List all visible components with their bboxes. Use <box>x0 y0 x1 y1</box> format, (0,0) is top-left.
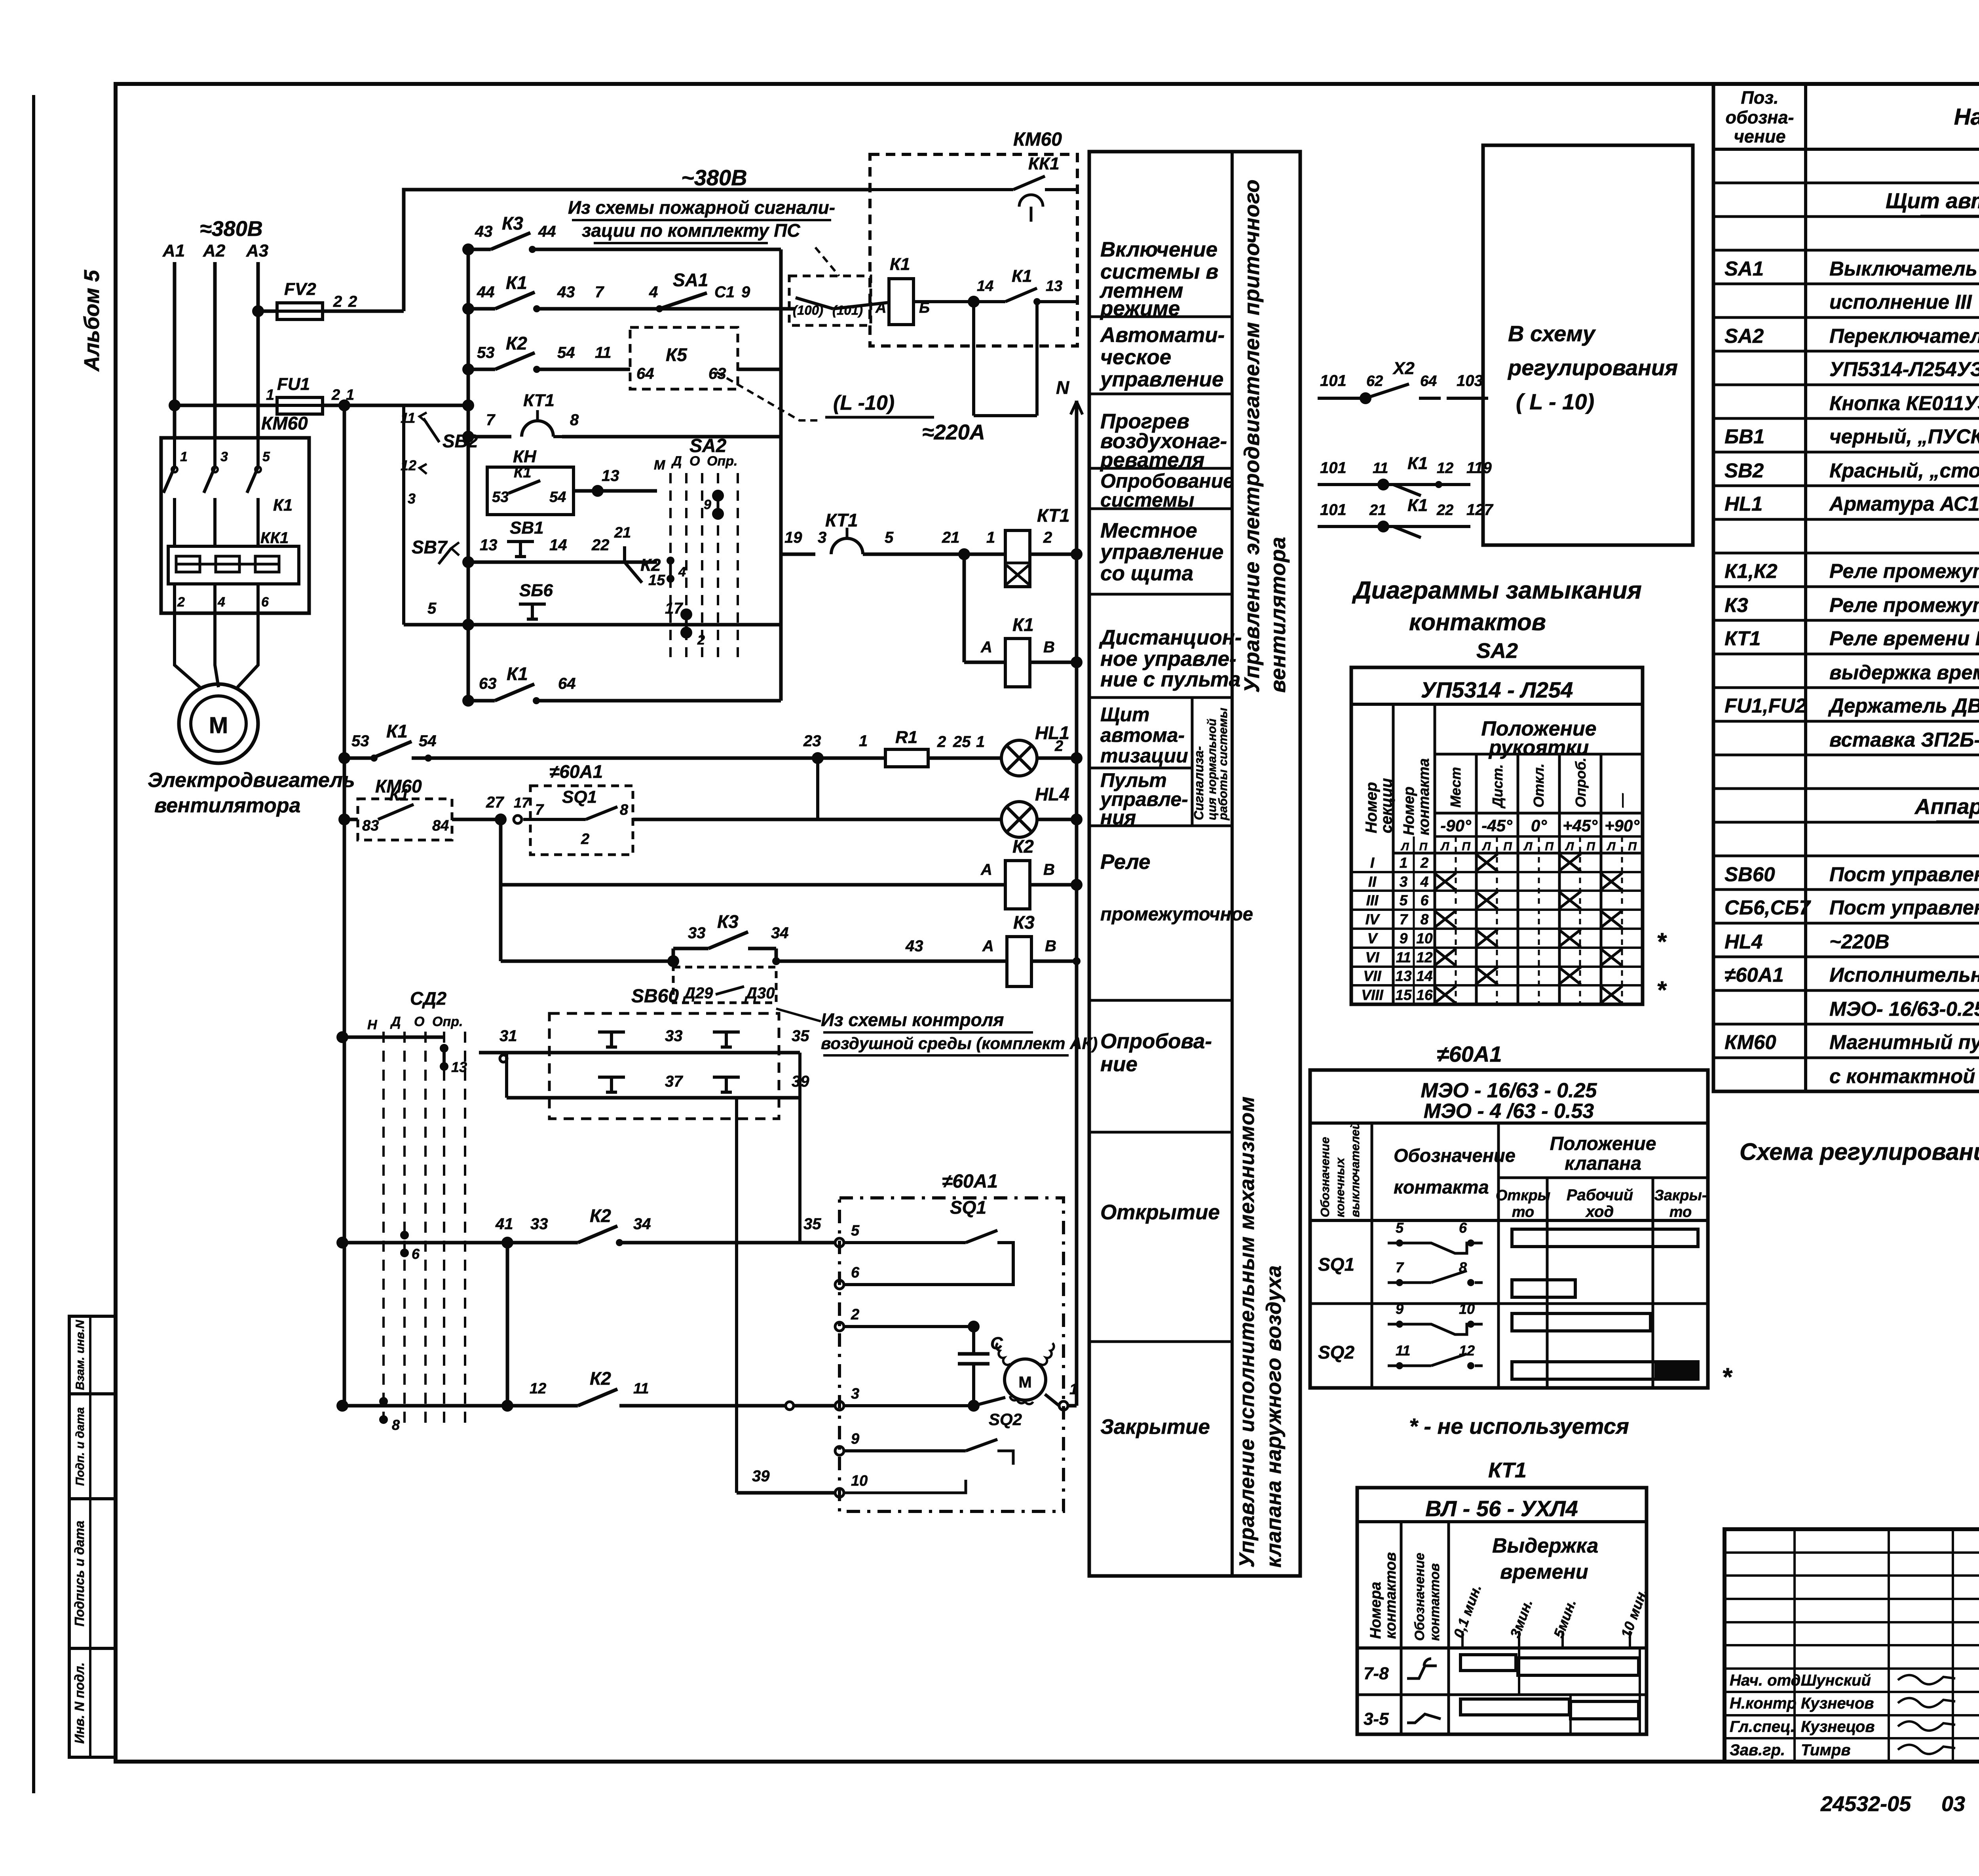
svg-text:34: 34 <box>633 1215 651 1233</box>
svg-text:ние: ние <box>1100 1053 1138 1076</box>
svg-text:К1: К1 <box>389 785 409 804</box>
svg-text:ВЛ - 56 - УХЛ4: ВЛ - 56 - УХЛ4 <box>1425 1496 1578 1521</box>
svg-text:Опр.: Опр. <box>432 1014 463 1029</box>
svg-text:Сигнализа-: Сигнализа- <box>1191 746 1206 820</box>
svg-text:4: 4 <box>678 565 686 580</box>
svg-text:43: 43 <box>905 937 923 955</box>
svg-text:Рабочий: Рабочий <box>1567 1186 1633 1204</box>
svg-text:КТ1: КТ1 <box>523 391 555 410</box>
svg-text:О: О <box>689 454 700 469</box>
svg-text:П: П <box>1462 840 1471 853</box>
svg-text:Диаграммы замыкания: Диаграммы замыкания <box>1352 577 1642 604</box>
svg-text:КТ1: КТ1 <box>1725 627 1761 650</box>
svg-text:64: 64 <box>636 365 654 382</box>
svg-text:35: 35 <box>792 1027 809 1045</box>
svg-text:3: 3 <box>851 1386 859 1402</box>
svg-text:5: 5 <box>885 529 894 546</box>
svg-text:63: 63 <box>479 675 497 692</box>
svg-text:8: 8 <box>570 411 579 429</box>
svg-text:22: 22 <box>1436 502 1453 519</box>
svg-text:Реле времени ВЛ-56-УХ14, ~220В: Реле времени ВЛ-56-УХ14, ~220В; <box>1829 627 1979 650</box>
svg-text:Кузнечов: Кузнечов <box>1801 1695 1874 1712</box>
svg-text:КМ60: КМ60 <box>261 413 308 433</box>
svg-text:SB60: SB60 <box>631 986 679 1007</box>
svg-text:К3: К3 <box>1013 912 1035 933</box>
svg-text:9: 9 <box>1400 930 1408 947</box>
svg-text:2: 2 <box>1054 738 1063 755</box>
svg-text:Тимрв: Тимрв <box>1801 1741 1851 1759</box>
svg-text:21: 21 <box>1369 502 1386 519</box>
svg-text:СД2: СД2 <box>410 988 446 1009</box>
svg-text:+90°: +90° <box>1605 816 1640 835</box>
svg-text:1: 1 <box>346 387 354 403</box>
svg-text:выдержка времени 0,1... 10 ми: выдержка времени 0,1... 10 мин. <box>1829 661 1979 684</box>
svg-text:КМ60: КМ60 <box>1725 1031 1776 1053</box>
svg-text:0°: 0° <box>1531 816 1547 835</box>
svg-text:≠60А1: ≠60А1 <box>1437 1042 1502 1066</box>
svg-text:1: 1 <box>1069 1381 1078 1398</box>
svg-text:черный, „ПУСК", исполнение 4: черный, „ПУСК", исполнение 4 <box>1829 425 1979 448</box>
svg-text:SB2: SB2 <box>1725 459 1764 482</box>
svg-text:2: 2 <box>937 733 946 751</box>
svg-text:то: то <box>1512 1204 1535 1220</box>
svg-text:КМ60: КМ60 <box>1013 129 1062 150</box>
svg-text:Л: Л <box>1400 840 1409 853</box>
svg-text:Гл.спец.: Гл.спец. <box>1730 1718 1795 1735</box>
svg-text:М: М <box>1018 1374 1031 1391</box>
svg-text:*: * <box>1656 977 1667 1004</box>
svg-text:15: 15 <box>648 572 665 589</box>
svg-text:МЭО- 16/63-0.25, ~220В: МЭО- 16/63-0.25, ~220В <box>1829 998 1979 1020</box>
svg-text:А1: А1 <box>162 241 185 260</box>
svg-text:SQ1: SQ1 <box>1318 1254 1354 1275</box>
svg-text:клапана наружного воздуха: клапана наружного воздуха <box>1262 1265 1286 1568</box>
svg-text:К1,К2: К1,К2 <box>1725 560 1778 582</box>
svg-text:62: 62 <box>1366 373 1383 390</box>
svg-text:Управление электродвигателем п: Управление электродвигателем приточного <box>1240 179 1264 693</box>
svg-text:Л: Л <box>1482 840 1491 853</box>
svg-text:К1: К1 <box>1012 266 1032 286</box>
svg-text:4: 4 <box>1420 874 1429 890</box>
svg-text:FV2: FV2 <box>284 279 316 299</box>
svg-text:84: 84 <box>432 817 449 834</box>
svg-text:SA1: SA1 <box>1725 257 1764 280</box>
svg-text:35: 35 <box>803 1215 821 1233</box>
svg-text:Аппаратура по месту: Аппаратура по месту <box>1914 794 1979 819</box>
svg-text:К2: К2 <box>1012 836 1034 857</box>
svg-text:времени: времени <box>1500 1560 1588 1583</box>
svg-text:54: 54 <box>549 489 566 506</box>
svg-text:7: 7 <box>1396 1259 1404 1275</box>
svg-text:HL1: HL1 <box>1725 492 1762 515</box>
svg-text:13: 13 <box>480 536 498 554</box>
svg-text:Переключатель универсальный: Переключатель универсальный <box>1829 325 1979 347</box>
svg-text:10: 10 <box>1459 1301 1475 1317</box>
svg-text:3: 3 <box>220 449 228 464</box>
svg-text:Подп. и дата: Подп. и дата <box>74 1407 87 1486</box>
svg-text:промежуточное: промежуточное <box>1100 903 1253 924</box>
svg-text:7: 7 <box>486 411 496 429</box>
svg-text:—: — <box>1614 793 1630 808</box>
svg-text:К3: К3 <box>1725 594 1748 616</box>
svg-text:14: 14 <box>549 536 567 554</box>
svg-text:13: 13 <box>451 1059 467 1075</box>
svg-text:Л: Л <box>1607 840 1616 853</box>
svg-text:2: 2 <box>177 595 185 610</box>
svg-text:43: 43 <box>557 283 575 301</box>
svg-text:МЭО - 4 /63 - 0.53: МЭО - 4 /63 - 0.53 <box>1424 1100 1594 1123</box>
svg-text:Включение: Включение <box>1100 238 1217 261</box>
svg-text:М: М <box>209 713 228 738</box>
svg-text:В: В <box>1043 639 1055 656</box>
svg-text:К5: К5 <box>666 344 688 365</box>
svg-text:рукоятки: рукоятки <box>1488 736 1589 759</box>
svg-text:7: 7 <box>1400 911 1409 928</box>
svg-text:П: П <box>1586 840 1595 853</box>
svg-text:Н.контр: Н.контр <box>1730 1695 1797 1712</box>
svg-text:14: 14 <box>977 278 993 295</box>
svg-text:контакта: контакта <box>1394 1177 1489 1197</box>
svg-text:11: 11 <box>595 344 612 361</box>
svg-text:К2: К2 <box>506 333 527 354</box>
svg-text:14: 14 <box>1416 968 1432 984</box>
svg-text:HL4: HL4 <box>1035 784 1069 804</box>
svg-text:~380В: ~380В <box>681 165 747 190</box>
svg-text:13: 13 <box>1046 278 1062 295</box>
svg-text:9: 9 <box>704 497 711 512</box>
svg-text:83: 83 <box>362 817 379 834</box>
svg-text:33: 33 <box>530 1215 548 1233</box>
svg-text:IV: IV <box>1366 911 1381 928</box>
svg-text:П: П <box>1545 840 1554 853</box>
svg-text:Из схемы контроля: Из схемы контроля <box>821 1009 1004 1030</box>
svg-text:Х2: Х2 <box>1392 359 1415 378</box>
svg-text:КН: КН <box>513 447 537 466</box>
svg-text:5: 5 <box>427 600 437 617</box>
svg-text:8: 8 <box>620 802 629 818</box>
svg-text:вентилятора: вентилятора <box>154 794 300 817</box>
svg-text:К1: К1 <box>1407 454 1428 473</box>
svg-text:27: 27 <box>486 794 504 811</box>
svg-text:1: 1 <box>976 733 985 751</box>
svg-text:управление: управление <box>1099 540 1223 564</box>
svg-text:33: 33 <box>688 924 706 942</box>
svg-text:Щит: Щит <box>1100 703 1149 726</box>
svg-text:FU1,FU2: FU1,FU2 <box>1725 694 1806 717</box>
svg-text:119: 119 <box>1466 459 1492 477</box>
svg-text:А: А <box>980 861 992 878</box>
svg-text:контактов: контактов <box>1409 609 1546 635</box>
svg-text:К1: К1 <box>507 663 528 684</box>
svg-text:Выключатель пакетный АВ1-16.43: Выключатель пакетный АВ1-16.43 ООБ, <box>1829 257 1979 280</box>
svg-text:SБ6: SБ6 <box>519 581 553 600</box>
svg-text:-45°: -45° <box>1481 816 1513 835</box>
svg-text:Держатель ДВП4-2В, плавкая: Держатель ДВП4-2В, плавкая <box>1828 694 1979 717</box>
svg-text:Магнитный пускатель типа ПМЛ: Магнитный пускатель типа ПМЛ <box>1829 1031 1979 1053</box>
svg-text:3: 3 <box>1400 874 1408 890</box>
svg-text:2: 2 <box>851 1306 859 1323</box>
svg-text:клапана: клапана <box>1565 1153 1641 1174</box>
svg-text:34: 34 <box>771 924 789 942</box>
svg-text:Д29: Д29 <box>683 985 713 1002</box>
svg-text:КТ1: КТ1 <box>1037 505 1070 526</box>
svg-text:ход: ход <box>1585 1203 1614 1220</box>
svg-text:Наименование: Наименование <box>1954 104 1979 130</box>
svg-text:54: 54 <box>419 732 437 750</box>
svg-text:Обозначение: Обозначение <box>1412 1553 1427 1641</box>
svg-text:SQ1: SQ1 <box>950 1197 986 1218</box>
svg-text:Зав.гр.: Зав.гр. <box>1730 1741 1785 1759</box>
svg-text:Номер: Номер <box>1401 787 1417 835</box>
svg-text:VIII: VIII <box>1361 987 1383 1003</box>
svg-text:Выдержка: Выдержка <box>1492 1534 1598 1557</box>
svg-text:Л: Л <box>1440 840 1450 853</box>
svg-text:Откры: Откры <box>1496 1187 1550 1204</box>
svg-text:О: О <box>414 1014 424 1029</box>
svg-text:54: 54 <box>557 344 575 361</box>
svg-text:работы системы: работы системы <box>1216 708 1230 821</box>
svg-text:10: 10 <box>851 1473 868 1489</box>
svg-text:Поз.: Поз. <box>1741 87 1778 108</box>
svg-text:Реле: Реле <box>1100 850 1151 874</box>
svg-text:64: 64 <box>558 675 576 692</box>
svg-text:управление: управление <box>1099 368 1223 391</box>
svg-text:44: 44 <box>538 223 556 240</box>
svg-text:В: В <box>1045 937 1056 955</box>
svg-text:Опробова-: Опробова- <box>1100 1030 1212 1053</box>
svg-text:7: 7 <box>595 283 604 301</box>
svg-text:воздушной среды (комплект АК): воздушной среды (комплект АК) <box>821 1034 1098 1053</box>
svg-text:К3: К3 <box>717 911 739 932</box>
svg-text:2: 2 <box>1420 855 1429 871</box>
svg-text:Открытие: Открытие <box>1100 1201 1220 1224</box>
svg-text:HL1: HL1 <box>1035 722 1069 743</box>
svg-text:Инв. N подл.: Инв. N подл. <box>72 1662 87 1743</box>
svg-text:П: П <box>1628 840 1637 853</box>
svg-text:М: М <box>654 458 665 473</box>
svg-text:SQ2: SQ2 <box>989 1410 1022 1429</box>
svg-text:12: 12 <box>1437 460 1453 477</box>
svg-text:К2: К2 <box>590 1205 611 1226</box>
svg-text:Арматура АС1201342,~220В „зеле: Арматура АС1201342,~220В „зеленый" <box>1829 492 1979 515</box>
svg-text:SQ2: SQ2 <box>1318 1342 1354 1363</box>
svg-text:≠60А1: ≠60А1 <box>942 1171 998 1192</box>
svg-text:~220В: ~220В <box>1829 930 1890 953</box>
svg-text:31: 31 <box>499 1027 517 1045</box>
svg-text:*: * <box>1722 1363 1733 1391</box>
svg-text:СБ6,СБ7: СБ6,СБ7 <box>1725 896 1811 919</box>
svg-text:II: II <box>1368 874 1377 890</box>
svg-text:43: 43 <box>475 223 493 240</box>
svg-text:9: 9 <box>741 283 750 301</box>
svg-text:Шунский: Шунский <box>1801 1672 1871 1689</box>
svg-text:Закры-: Закры- <box>1654 1187 1707 1204</box>
svg-text:SB7: SB7 <box>412 537 448 557</box>
svg-text:101: 101 <box>1320 372 1347 390</box>
svg-text:*: * <box>1656 928 1667 956</box>
svg-text:К1: К1 <box>273 496 292 514</box>
svg-text:Из схемы пожарной сигнали-: Из схемы пожарной сигнали- <box>568 197 835 218</box>
svg-text:К2: К2 <box>590 1368 611 1389</box>
svg-text:101: 101 <box>1320 501 1347 519</box>
svg-text:Опроб.: Опроб. <box>1573 758 1589 808</box>
svg-text:1: 1 <box>859 732 868 750</box>
svg-text:SA2: SA2 <box>1476 639 1518 663</box>
svg-text:2: 2 <box>1043 529 1052 546</box>
svg-text:контакта: контакта <box>1416 758 1432 835</box>
svg-text:101: 101 <box>1320 459 1347 477</box>
svg-text:Реле промежуточное ПЭ-37-42У3,: Реле промежуточное ПЭ-37-42У3,~220В, <box>1829 560 1979 582</box>
svg-text:16: 16 <box>1416 987 1433 1003</box>
svg-text:≠60А1: ≠60А1 <box>1725 964 1784 986</box>
svg-text:22: 22 <box>591 536 610 554</box>
svg-text:К3: К3 <box>502 213 523 234</box>
svg-text:5: 5 <box>1396 1220 1404 1236</box>
svg-text:41: 41 <box>495 1215 513 1233</box>
svg-text:Альбом 5: Альбом 5 <box>80 270 104 372</box>
svg-text:7: 7 <box>535 802 544 818</box>
svg-text:Мест: Мест <box>1447 767 1464 808</box>
svg-text:N: N <box>1056 377 1069 398</box>
svg-text:2: 2 <box>581 831 589 848</box>
svg-text:чение: чение <box>1734 126 1786 146</box>
svg-text:2: 2 <box>348 293 357 310</box>
svg-text:11: 11 <box>1396 1342 1410 1359</box>
svg-text:5: 5 <box>262 449 270 464</box>
svg-text:7-8: 7-8 <box>1364 1664 1389 1683</box>
svg-text:≈220А: ≈220А <box>922 420 985 444</box>
svg-text:Кнопка КЕ011УЗ:: Кнопка КЕ011УЗ: <box>1829 392 1979 414</box>
svg-text:12: 12 <box>530 1380 546 1397</box>
svg-text:SQ1: SQ1 <box>562 787 597 807</box>
svg-text:SB1: SB1 <box>510 518 544 538</box>
svg-text:FU1: FU1 <box>277 374 310 394</box>
svg-text:контактов: контактов <box>1427 1563 1442 1641</box>
svg-text:Опр.: Опр. <box>707 454 737 469</box>
svg-text:V: V <box>1367 930 1379 947</box>
svg-text:вентилятора: вентилятора <box>1266 536 1290 693</box>
svg-text:Красный, „стоп", исполнение 5: Красный, „стоп", исполнение 5 <box>1829 459 1979 482</box>
svg-text:33: 33 <box>665 1027 683 1045</box>
svg-text:Номера: Номера <box>1367 1582 1384 1639</box>
svg-text:Д30: Д30 <box>744 985 775 1002</box>
svg-text:Кузнецов: Кузнецов <box>1801 1718 1875 1735</box>
svg-text:КТ1: КТ1 <box>825 510 858 530</box>
svg-text:А: А <box>982 937 994 955</box>
svg-text:К1: К1 <box>1012 614 1034 635</box>
svg-text:( L - 10): ( L - 10) <box>1516 389 1594 414</box>
svg-text:1: 1 <box>180 449 188 464</box>
svg-text:11: 11 <box>1396 949 1411 966</box>
svg-text:УП5314 - Л254: УП5314 - Л254 <box>1421 677 1573 702</box>
svg-text:SB2: SB2 <box>443 431 478 451</box>
svg-text:13: 13 <box>1395 968 1412 984</box>
svg-text:6: 6 <box>851 1264 860 1281</box>
svg-text:8: 8 <box>1421 911 1429 928</box>
svg-text:Закрытие: Закрытие <box>1100 1415 1210 1439</box>
svg-text:SA2: SA2 <box>1725 325 1764 347</box>
svg-text:+45°: +45° <box>1563 816 1598 835</box>
svg-text:конечных: конечных <box>1333 1157 1347 1217</box>
svg-text:03: 03 <box>1941 1792 1965 1816</box>
svg-text:Электродвигатель: Электродвигатель <box>148 769 355 792</box>
svg-text:Подпись и дата: Подпись и дата <box>72 1521 87 1627</box>
svg-text:6: 6 <box>1421 892 1429 909</box>
svg-text:К1: К1 <box>1407 496 1428 515</box>
svg-text:9: 9 <box>1396 1301 1404 1317</box>
svg-text:контактов: контактов <box>1383 1552 1399 1639</box>
svg-text:ние с пульта: ние с пульта <box>1100 668 1240 691</box>
svg-text:5: 5 <box>1400 892 1408 909</box>
svg-text:2: 2 <box>331 387 340 403</box>
svg-text:УП5314-Л254УЗ.: УП5314-Л254УЗ. <box>1829 358 1979 380</box>
svg-text:103: 103 <box>1457 372 1483 390</box>
svg-text:-90°: -90° <box>1440 816 1472 835</box>
svg-text:64: 64 <box>1420 373 1437 390</box>
svg-text:К1: К1 <box>890 255 910 274</box>
svg-text:Л: Л <box>1565 840 1574 853</box>
svg-text:SB60: SB60 <box>1725 863 1775 886</box>
svg-text:≈380В: ≈380В <box>200 217 263 241</box>
svg-text:ное управле-: ное управле- <box>1100 647 1236 671</box>
svg-text:3-5: 3-5 <box>1364 1709 1389 1729</box>
svg-text:Откл.: Откл. <box>1531 763 1547 808</box>
svg-text:КТ1: КТ1 <box>1488 1458 1527 1482</box>
svg-text:В схему: В схему <box>1508 321 1596 346</box>
svg-text:1: 1 <box>986 529 995 546</box>
svg-text:≠60А1: ≠60А1 <box>549 761 603 782</box>
svg-text:9: 9 <box>851 1431 859 1447</box>
svg-text:I: I <box>1370 855 1375 871</box>
svg-text:К1: К1 <box>506 272 527 293</box>
svg-text:24532-05: 24532-05 <box>1820 1792 1911 1816</box>
svg-text:Дист.: Дист. <box>1489 764 1506 809</box>
svg-text:В: В <box>1043 861 1055 878</box>
svg-text:37: 37 <box>665 1073 683 1090</box>
svg-text:25: 25 <box>953 733 971 751</box>
svg-text:127: 127 <box>1466 501 1493 519</box>
svg-text:КК1: КК1 <box>260 529 289 547</box>
svg-text:Дистанцион-: Дистанцион- <box>1099 626 1242 649</box>
svg-text:17: 17 <box>514 794 530 811</box>
svg-text:С1: С1 <box>714 283 735 301</box>
svg-text:выключателей: выключателей <box>1348 1122 1362 1217</box>
svg-text:19: 19 <box>784 529 802 546</box>
svg-text:53: 53 <box>492 489 509 506</box>
svg-text:автома-: автома- <box>1100 724 1185 746</box>
svg-text:Пост управления ПКУ15-21.331-5: Пост управления ПКУ15-21.331-54У2 <box>1829 896 1979 919</box>
svg-text:SA1: SA1 <box>673 270 708 290</box>
svg-text:А: А <box>980 639 992 656</box>
svg-text:12: 12 <box>1416 949 1433 966</box>
svg-text:8: 8 <box>392 1417 400 1433</box>
svg-text:Взам. инв.N: Взам. инв.N <box>74 1319 87 1390</box>
svg-text:1: 1 <box>266 387 274 403</box>
svg-text:HL4: HL4 <box>1725 930 1762 953</box>
svg-text:Автомати-: Автомати- <box>1100 323 1225 347</box>
svg-text:тизации: тизации <box>1100 745 1188 767</box>
svg-text:III: III <box>1366 892 1379 909</box>
svg-text:11: 11 <box>633 1380 649 1397</box>
svg-text:R1: R1 <box>895 728 917 747</box>
svg-text:4: 4 <box>649 283 658 301</box>
svg-text:39: 39 <box>752 1467 770 1485</box>
svg-text:Управление исполнительным мех: Управление исполнительным механизмом <box>1235 1096 1259 1568</box>
svg-text:15: 15 <box>1395 987 1412 1003</box>
svg-text:Д: Д <box>671 454 682 469</box>
svg-text:6: 6 <box>412 1246 420 1262</box>
svg-text:БВ1: БВ1 <box>1725 425 1764 448</box>
